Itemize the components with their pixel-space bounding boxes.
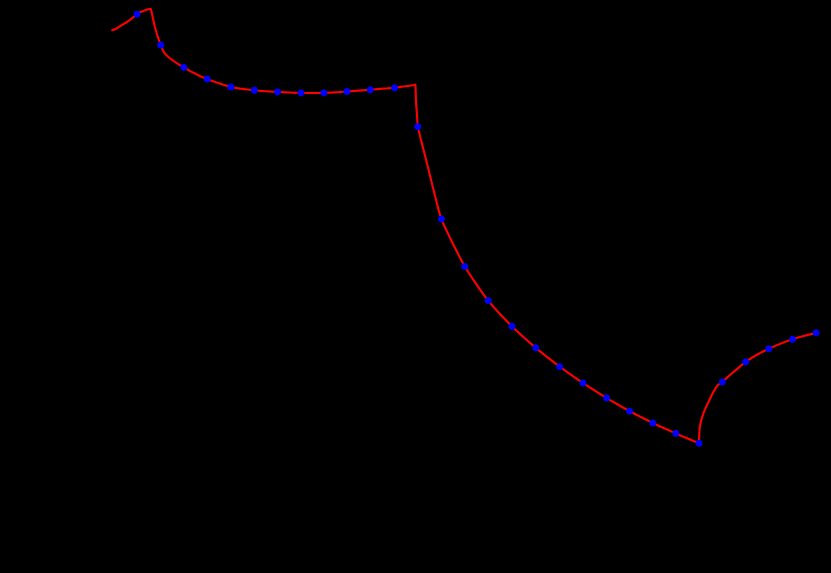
- marker point 6: [251, 87, 258, 94]
- marker point 18: [532, 344, 539, 351]
- marker point 10: [343, 88, 350, 95]
- marker point 22: [626, 408, 633, 415]
- marker point 3: [180, 64, 187, 71]
- marker point 4: [204, 76, 211, 83]
- marker point 25: [696, 440, 703, 447]
- marker point 27: [742, 358, 749, 365]
- marker point 29: [789, 336, 796, 343]
- marker point 24: [672, 430, 679, 437]
- marker point 15: [461, 263, 468, 270]
- marker point 30: [813, 329, 820, 336]
- marker point 5: [227, 84, 234, 91]
- marker point 20: [580, 380, 587, 387]
- marker point 2: [157, 42, 164, 49]
- marker point 28: [765, 345, 772, 352]
- marker point 9: [320, 89, 327, 96]
- marker point 21: [603, 395, 610, 402]
- marker point 16: [485, 297, 492, 304]
- marker point 13: [414, 123, 421, 130]
- marker point 17: [509, 323, 516, 330]
- marker point 19: [556, 363, 563, 370]
- red solution curve: [112, 9, 816, 443]
- marker point 8: [298, 89, 305, 96]
- marker point 14: [438, 216, 445, 223]
- marker point 1: [134, 11, 141, 18]
- marker point 23: [649, 420, 656, 427]
- marker point 7: [274, 88, 281, 95]
- marker point 12: [391, 84, 398, 91]
- marker point 26: [719, 379, 726, 386]
- marker point 11: [367, 86, 374, 93]
